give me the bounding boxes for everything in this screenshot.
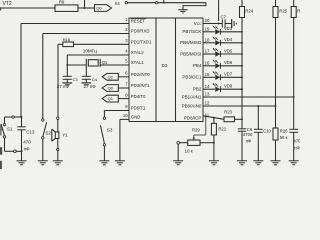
svg-text:R24: R24 <box>245 9 253 14</box>
svg-text:C7: C7 <box>221 14 227 19</box>
svg-text:C4: C4 <box>92 77 98 82</box>
svg-text:R25: R25 <box>279 9 287 14</box>
svg-text:Q1: Q1 <box>102 60 108 65</box>
svg-text:R23: R23 <box>224 109 232 114</box>
svg-text:19: 19 <box>205 27 210 32</box>
svg-text:VD8: VD8 <box>224 84 233 89</box>
svg-text:PB2: PB2 <box>193 87 202 92</box>
svg-text:XTAL1: XTAL1 <box>131 60 144 65</box>
svg-text:Q0: Q0 <box>108 86 114 91</box>
svg-text:15: 15 <box>205 72 210 77</box>
svg-text:56 к: 56 к <box>280 135 288 140</box>
svg-text:PB1/AIN1: PB1/AIN1 <box>182 94 202 99</box>
svg-text:18: 18 <box>205 38 210 43</box>
svg-text:20: 20 <box>205 18 210 23</box>
svg-text:PB6/MISO: PB6/MISO <box>180 40 202 45</box>
svg-text:13: 13 <box>205 92 210 97</box>
svg-text:R29: R29 <box>192 127 200 132</box>
svg-text:VD3: VD3 <box>224 26 233 31</box>
svg-text:D3: D3 <box>162 63 168 68</box>
svg-text:VT2: VT2 <box>3 1 12 7</box>
svg-text:пФ: пФ <box>246 138 252 143</box>
svg-text:GND: GND <box>131 115 141 120</box>
svg-text:27 пФ: 27 пФ <box>57 84 70 89</box>
svg-text:PD5/T1: PD5/T1 <box>131 106 146 111</box>
svg-text:PB7/SCK: PB7/SCK <box>182 29 201 34</box>
svg-text:PD1/TXD1: PD1/TXD1 <box>131 40 152 45</box>
svg-text:12: 12 <box>205 101 210 106</box>
svg-text:PB3/OC1: PB3/OC1 <box>182 75 202 80</box>
svg-text:VD5: VD5 <box>224 48 233 53</box>
svg-text:Q0: Q0 <box>96 6 102 11</box>
svg-text:R22: R22 <box>218 126 226 131</box>
svg-text:пФ: пФ <box>294 146 300 151</box>
svg-text:PD4/T0: PD4/T0 <box>131 94 146 99</box>
svg-text:Y1: Y1 <box>62 133 68 138</box>
svg-text:PD3/INT1: PD3/INT1 <box>131 83 150 88</box>
svg-text:C10: C10 <box>263 129 271 134</box>
svg-text:C3: C3 <box>73 77 79 82</box>
svg-text:17: 17 <box>205 49 210 54</box>
svg-text:VD7: VD7 <box>224 72 233 77</box>
svg-text:PD6/ICP: PD6/ICP <box>184 115 202 120</box>
svg-text:27 пФ: 27 пФ <box>84 84 97 89</box>
svg-text:PB5/MOSI: PB5/MOSI <box>180 51 201 56</box>
svg-text:VD4: VD4 <box>224 37 233 42</box>
svg-text:10 к: 10 к <box>185 149 193 154</box>
svg-text:16: 16 <box>205 61 210 66</box>
svg-text:VD6: VD6 <box>224 60 233 65</box>
svg-text:R27: R27 <box>297 9 300 14</box>
svg-text:X4: X4 <box>115 1 121 6</box>
svg-text:10: 10 <box>123 113 128 118</box>
svg-text:VCC: VCC <box>194 21 202 26</box>
svg-text:4700: 4700 <box>293 138 300 143</box>
svg-text:XTAL2: XTAL2 <box>131 50 144 55</box>
svg-text:4700: 4700 <box>243 132 253 137</box>
svg-text:PB4: PB4 <box>193 63 202 68</box>
svg-text:C13: C13 <box>26 130 35 135</box>
svg-text:R18: R18 <box>63 37 71 42</box>
svg-text:S1: S1 <box>7 127 13 132</box>
svg-text:R9: R9 <box>59 0 65 4</box>
svg-text:R26: R26 <box>280 129 288 134</box>
svg-text:S3: S3 <box>107 128 113 133</box>
svg-text:Q1: Q1 <box>108 96 114 101</box>
svg-text:470: 470 <box>23 140 31 145</box>
svg-text:PB0/AIN0: PB0/AIN0 <box>182 103 202 108</box>
svg-text:PD2/INT0: PD2/INT0 <box>131 72 150 77</box>
svg-text:RESET: RESET <box>131 19 146 24</box>
svg-text:Q2: Q2 <box>108 74 114 79</box>
svg-text:14: 14 <box>205 84 210 89</box>
svg-text:10МГц: 10МГц <box>83 49 97 54</box>
svg-text:пФ: пФ <box>24 147 30 152</box>
svg-text:S2: S2 <box>45 131 51 136</box>
svg-text:PD0/RXD: PD0/RXD <box>131 29 150 34</box>
